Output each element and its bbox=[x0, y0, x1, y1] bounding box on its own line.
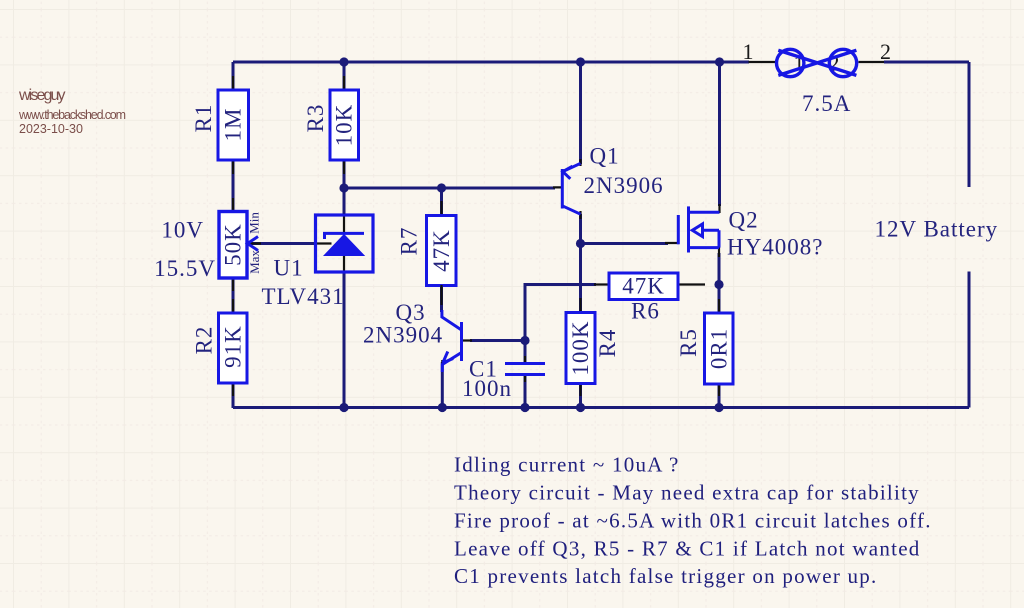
svg-text:47K: 47K bbox=[429, 229, 454, 272]
junction bottom rail at Q3 emitter bbox=[438, 403, 447, 412]
svg-text:R3: R3 bbox=[303, 104, 328, 133]
transistor Q1 2N3906 PNP bbox=[553, 159, 581, 219]
resistor R3 bbox=[303, 76, 359, 174]
resistor R7 bbox=[397, 201, 457, 300]
wire R3 column bbox=[343, 62, 346, 215]
svg-text:47K: 47K bbox=[622, 274, 665, 299]
svg-text:R6: R6 bbox=[631, 299, 660, 324]
wire R7 to Q3 collector bbox=[440, 188, 443, 312]
junction bottom rail at R5 bbox=[714, 403, 723, 412]
svg-text:R5: R5 bbox=[676, 328, 701, 357]
svg-text:R1: R1 bbox=[191, 104, 216, 133]
svg-text:R7: R7 bbox=[397, 227, 422, 256]
svg-text:91K: 91K bbox=[221, 325, 246, 368]
wire top rail bbox=[233, 61, 749, 64]
svg-text:100n: 100n bbox=[462, 376, 512, 401]
svg-text:2: 2 bbox=[880, 39, 891, 64]
wire Q2 source down to R5 bbox=[718, 253, 721, 408]
svg-text:Min: Min bbox=[247, 212, 262, 234]
wire C1 column bbox=[524, 341, 527, 409]
potentiometer 50K bbox=[219, 198, 262, 291]
junction Q2 source R6 node bbox=[714, 280, 723, 289]
wire R4 column bbox=[579, 244, 582, 409]
svg-text:wiseguy: wiseguy bbox=[18, 87, 66, 104]
capacitor C1 bbox=[505, 356, 545, 382]
svg-text:12V Battery: 12V Battery bbox=[875, 217, 999, 242]
transistor Q3 2N3904 NPN bbox=[442, 285, 473, 372]
wire Q1 emitter up bbox=[579, 62, 582, 164]
wire U1 anode down bbox=[343, 272, 346, 408]
resistor R5 bbox=[676, 299, 733, 396]
svg-text:www.thebackshed.com: www.thebackshed.com bbox=[18, 108, 126, 122]
wire Q1 collector to Q2 gate bbox=[581, 242, 669, 245]
svg-text:100K: 100K bbox=[568, 320, 593, 375]
transistor Q2 HY4008 NMOS bbox=[665, 204, 720, 257]
junction top rail at Q1 emitter bbox=[576, 57, 585, 66]
wire left column bbox=[232, 62, 235, 408]
svg-text:R2: R2 bbox=[192, 326, 217, 355]
junction mid rail at U1 cathode bbox=[339, 183, 348, 192]
junction Q1 collector node bbox=[576, 239, 585, 248]
wire C1 node up and across to R6 bbox=[525, 285, 596, 341]
junction mid rail at R7 bbox=[437, 183, 446, 192]
svg-text:Fire proof - at ~6.5A with 0R1: Fire proof - at ~6.5A with 0R1 circuit l… bbox=[454, 509, 932, 533]
svg-text:2N3906: 2N3906 bbox=[584, 173, 664, 198]
junction bottom rail at U1 anode bbox=[339, 403, 348, 412]
svg-text:15.5V: 15.5V bbox=[154, 256, 216, 281]
svg-text:U1: U1 bbox=[274, 256, 304, 281]
svg-text:2023-10-30: 2023-10-30 bbox=[19, 122, 83, 136]
svg-text:Leave off Q3, R5 - R7 & C1 if: Leave off Q3, R5 - R7 & C1 if Latch not … bbox=[454, 537, 921, 561]
wire Q3 emitter down bbox=[441, 362, 444, 408]
wire top rail right of fuse bbox=[884, 61, 969, 64]
wire right battery upper bbox=[968, 62, 971, 187]
wire bottom rail bbox=[233, 406, 969, 409]
svg-text:Theory circuit - May need extr: Theory circuit - May need extra cap for … bbox=[454, 481, 920, 505]
svg-text:Q1: Q1 bbox=[590, 144, 620, 169]
svg-text:2N3904: 2N3904 bbox=[363, 323, 443, 348]
wire pot wiper to U1 bbox=[248, 242, 316, 245]
svg-text:1: 1 bbox=[743, 39, 754, 64]
junction bottom rail at R4 bbox=[576, 403, 585, 412]
svg-text:R4: R4 bbox=[595, 329, 620, 358]
svg-text:1M: 1M bbox=[221, 108, 246, 142]
svg-text:Q3: Q3 bbox=[396, 300, 426, 325]
junction top rail at R3 bbox=[339, 57, 348, 66]
svg-text:10V: 10V bbox=[161, 218, 204, 243]
svg-text:Idling current ~ 10uA ?: Idling current ~ 10uA ? bbox=[454, 453, 680, 477]
wire mid rail R3 to Q1 base bbox=[344, 187, 555, 190]
svg-text:Max: Max bbox=[247, 250, 262, 274]
shunt reference U1 TLV431 bbox=[316, 213, 374, 273]
wire right battery lower bbox=[968, 272, 971, 408]
svg-text:10K: 10K bbox=[332, 104, 357, 147]
svg-text:HY4008?: HY4008? bbox=[727, 235, 823, 260]
svg-text:0R1: 0R1 bbox=[707, 328, 732, 369]
wire Q2 drain up bbox=[718, 62, 721, 206]
svg-text:C1 prevents latch false trigge: C1 prevents latch false trigger on power… bbox=[454, 564, 878, 588]
fuse F1 7.5A bbox=[749, 49, 885, 76]
svg-text:Q2: Q2 bbox=[729, 208, 759, 233]
resistor R6 bbox=[594, 273, 705, 324]
resistor R1 bbox=[191, 76, 249, 174]
junction bottom rail at C1 bbox=[520, 403, 529, 412]
wire Q3 base to C1 node bbox=[470, 339, 525, 342]
resistor R2 bbox=[192, 299, 248, 396]
svg-text:TLV431: TLV431 bbox=[262, 284, 345, 309]
junction Q3 base C1 node bbox=[520, 336, 529, 345]
svg-text:7.5A: 7.5A bbox=[802, 91, 851, 116]
svg-text:50K: 50K bbox=[221, 223, 246, 266]
resistor R4 bbox=[566, 298, 620, 396]
wire Q1 collector down bbox=[579, 214, 582, 244]
junction top rail at Q2 drain bbox=[715, 57, 724, 66]
